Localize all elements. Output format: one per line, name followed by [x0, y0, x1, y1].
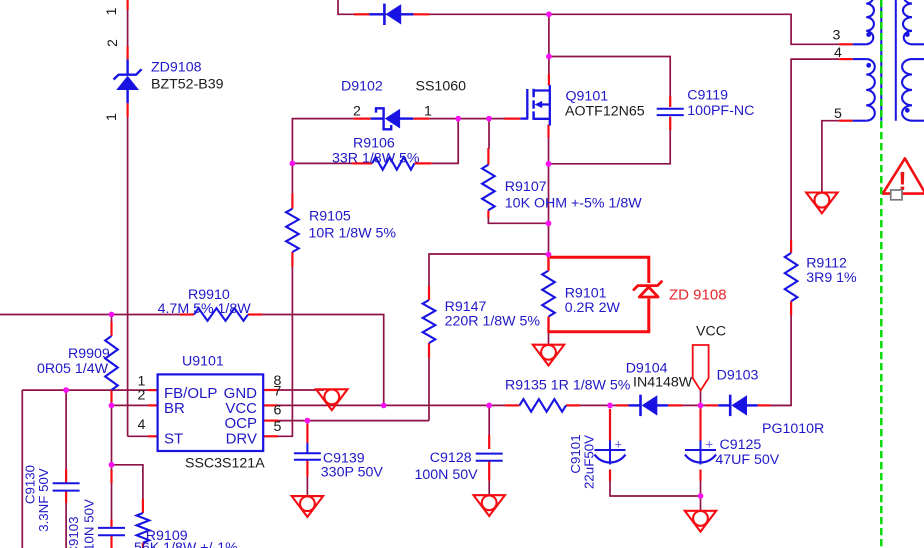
ground at C9139	[292, 496, 323, 517]
svg-text:BZT52-B39: BZT52-B39	[151, 77, 224, 93]
svg-text:D9102: D9102	[341, 78, 383, 94]
label R9101	[565, 285, 607, 301]
capacitor C9130	[53, 483, 80, 490]
wire HV top feed	[338, 0, 549, 14]
capacitor C9101	[595, 437, 626, 465]
label R9106	[353, 135, 395, 151]
svg-text:C9103: C9103	[66, 516, 81, 548]
svg-text:3: 3	[833, 27, 841, 43]
wire C9101 bottom	[610, 481, 701, 497]
wire VCC symbol stub	[700, 391, 702, 410]
svg-text:4: 4	[834, 45, 842, 61]
svg-text:+: +	[615, 437, 623, 452]
svg-text:AOTF12N65: AOTF12N65	[565, 104, 645, 120]
wire drain to MOSFET	[548, 57, 550, 75]
svg-text:10R 1/8W 5%: 10R 1/8W 5%	[309, 225, 397, 241]
resistor R9101	[542, 271, 555, 317]
label R9109	[146, 528, 188, 544]
label D9103	[717, 368, 759, 384]
label R9112	[806, 256, 847, 272]
transformer secondary winding top	[903, 0, 924, 44]
wire left edge drop	[21, 390, 23, 548]
transformer secondary winding bottom	[902, 59, 924, 121]
svg-text:BR: BR	[164, 400, 185, 417]
IC pin numbers left	[138, 373, 146, 433]
resistor R9909	[105, 336, 118, 390]
wire R9107 bottom link	[488, 217, 548, 223]
label AOTF12N65	[565, 104, 645, 120]
label ZD9108	[151, 60, 202, 76]
svg-text:1: 1	[104, 113, 120, 121]
svg-text:C9125: C9125	[720, 437, 762, 453]
label pin 2 zener	[105, 39, 121, 47]
svg-text:2: 2	[138, 388, 146, 404]
svg-text:7: 7	[274, 383, 282, 399]
wire GND pin line	[263, 389, 324, 391]
svg-text:1: 1	[424, 103, 432, 119]
label VCC	[696, 324, 726, 340]
label R9106 value	[332, 150, 420, 166]
wire C9128 drop	[488, 405, 490, 495]
warning triangle symbol	[883, 158, 924, 199]
red highlight wire box	[549, 257, 649, 333]
label C9130 value	[36, 468, 51, 532]
svg-text:4.7M 5% 1/8W: 4.7M 5% 1/8W	[158, 301, 252, 317]
wire VCC line seg2	[579, 404, 617, 406]
label IN4148W	[633, 375, 693, 391]
label R9147	[445, 299, 487, 315]
label C9128 value	[415, 467, 479, 483]
wire transformer pin 4 down	[791, 59, 839, 241]
wire R9101 to ground	[548, 333, 550, 345]
wire VCC line seg1	[277, 404, 506, 406]
svg-text:Q9101: Q9101	[566, 89, 609, 105]
label R9107 value	[505, 195, 642, 211]
capacitor C9103	[98, 528, 125, 535]
svg-text:OCP: OCP	[224, 415, 257, 432]
wire C9139 drop	[306, 421, 308, 497]
svg-text:D9103: D9103	[717, 368, 759, 384]
label pin 1 zener	[104, 113, 120, 121]
diode D9104	[629, 395, 669, 416]
label ZD 9108	[669, 287, 727, 304]
wire transformer pin 5 to ground	[822, 121, 839, 193]
transformer polarity dots secondary	[905, 32, 910, 113]
wire snubber top	[549, 57, 670, 108]
svg-text:3R9 1%: 3R9 1%	[806, 270, 857, 286]
svg-text:2: 2	[105, 39, 121, 47]
svg-text:4: 4	[138, 417, 146, 433]
wire C9103 rail	[111, 483, 113, 521]
svg-text:R9105: R9105	[309, 209, 351, 225]
label R9910	[188, 287, 230, 303]
svg-text:1: 1	[104, 7, 120, 15]
ground at R9101	[533, 345, 564, 366]
svg-text:PG1010R: PG1010R	[762, 421, 824, 437]
svg-text:100PF-NC: 100PF-NC	[687, 103, 754, 119]
wire VCC line seg4	[770, 404, 791, 406]
ground at C9128	[474, 495, 505, 516]
wire left rail	[128, 10, 149, 437]
svg-text:R9107: R9107	[505, 179, 547, 195]
wire FB/OLP line	[22, 389, 149, 391]
label SS1060	[416, 78, 467, 94]
wire C9125 bottom	[700, 481, 702, 512]
wire gate net	[429, 118, 505, 120]
svg-text:5: 5	[834, 106, 842, 122]
resistor R9910	[194, 308, 248, 321]
label D9102 pin 2	[353, 103, 361, 119]
capacitor C9139	[294, 443, 321, 460]
wire drain drop	[548, 14, 550, 56]
diode D9103	[718, 395, 757, 416]
transformer primary winding 4-5	[853, 59, 875, 121]
label 100PF-NC	[687, 103, 754, 119]
label C9139	[323, 450, 365, 466]
ground at C9125	[685, 511, 716, 532]
svg-text:56K 1/8W +/-1%: 56K 1/8W +/-1%	[134, 540, 238, 548]
wire D9102 left loop	[292, 119, 353, 164]
wire R9910 right to VCC line	[262, 315, 384, 406]
label D9102 pin 1	[424, 103, 432, 119]
diode D9102	[371, 108, 414, 129]
svg-text:SS1060: SS1060	[416, 78, 467, 94]
label C9119	[687, 88, 728, 104]
label Q9101	[566, 89, 609, 105]
svg-text:100N 50V: 100N 50V	[415, 467, 479, 483]
wire snubber bottom	[549, 117, 671, 164]
transformer primary winding 3-4	[853, 0, 874, 44]
label C9103 value	[81, 499, 96, 548]
label R9109 value	[134, 540, 238, 548]
svg-text:U9101: U9101	[182, 354, 224, 370]
isolation barrier dashed line	[880, 0, 882, 548]
resistor R9109	[137, 513, 150, 543]
svg-text:47UF 50V: 47UF 50V	[715, 452, 779, 468]
capacitor C9128	[476, 454, 503, 461]
wire VCC line seg3	[682, 404, 707, 406]
IC pin numbers right	[274, 373, 282, 435]
svg-text:R9112: R9112	[806, 256, 847, 272]
svg-text:330P 50V: 330P 50V	[321, 465, 384, 481]
wire R9112 to D9103	[770, 315, 791, 406]
label R9909	[68, 346, 110, 362]
capacitor C9119	[657, 109, 684, 115]
IC pin names right	[224, 385, 258, 448]
wire R9909 rail	[111, 315, 113, 471]
label R9135	[505, 378, 631, 394]
svg-text:R9106: R9106	[353, 135, 395, 151]
wire R9147 vertical	[429, 254, 549, 421]
zener ZD 9108 red	[634, 282, 662, 297]
ground at GND pin	[316, 389, 347, 410]
label D9104	[626, 361, 668, 377]
label C9101 value	[582, 435, 597, 489]
power symbol VCC	[693, 345, 709, 391]
svg-text:3.3NF 50V: 3.3NF 50V	[36, 468, 51, 532]
svg-text:22uF50V: 22uF50V	[582, 435, 597, 489]
label R9910 value	[158, 301, 252, 317]
svg-text:C9119: C9119	[687, 88, 728, 104]
label R9112 value	[806, 270, 857, 286]
wire R9107 top link	[488, 119, 490, 149]
label R9101 value	[565, 300, 621, 316]
svg-text:ZD 9108: ZD 9108	[669, 287, 727, 304]
label U9101	[182, 354, 224, 370]
wire source rail down	[548, 137, 550, 257]
label R9147 value	[445, 313, 541, 329]
svg-text:0.2R 2W: 0.2R 2W	[565, 300, 621, 316]
wire R9105 to DRV pin	[277, 267, 292, 437]
svg-text:2: 2	[353, 103, 361, 119]
label transformer pin 5	[834, 106, 842, 122]
svg-text:+: +	[706, 437, 714, 452]
svg-text:10N 50V: 10N 50V	[81, 499, 96, 548]
wire R9109 link	[112, 465, 143, 500]
op-amp U9101 box	[158, 374, 264, 451]
svg-text:220R 1/8W 5%: 220R 1/8W 5%	[445, 313, 541, 329]
label PG1010R	[762, 421, 824, 437]
wire R9106 left	[292, 162, 352, 164]
wire OCP line	[277, 420, 429, 422]
label transformer pin 4	[834, 45, 842, 61]
capacitor C9125	[685, 437, 716, 465]
resistor R9107	[482, 165, 495, 211]
wire top feed to transformer pin 3	[549, 14, 839, 44]
svg-text:IN4148W: IN4148W	[633, 375, 693, 391]
resistor R9112	[785, 253, 798, 301]
ground at transformer pin 5	[806, 193, 837, 214]
label R9105	[309, 209, 351, 225]
label R9107	[505, 179, 547, 195]
svg-text:33R 1/8W 5%: 33R 1/8W 5%	[332, 150, 420, 166]
IC pin names left	[164, 385, 217, 448]
label pin 1 top	[104, 7, 120, 15]
svg-text:DRV: DRV	[226, 431, 257, 448]
label R9105 value	[309, 225, 397, 241]
label C9125 value	[715, 452, 779, 468]
label C9139 value	[321, 465, 384, 481]
wire gate loop to R9106	[432, 119, 458, 164]
label C9125	[720, 437, 762, 453]
label SSC3S121A	[185, 455, 265, 471]
wire HV horizontal	[0, 314, 181, 316]
label C9128	[430, 450, 472, 466]
svg-text:5: 5	[274, 419, 282, 435]
resistor R9135	[520, 399, 567, 412]
transformer core lines	[881, 0, 896, 121]
svg-text:R9909: R9909	[68, 346, 110, 362]
resistor R9105	[286, 209, 299, 252]
label transformer pin 3	[833, 27, 841, 43]
svg-text:VCC: VCC	[696, 324, 726, 340]
resistor R9106	[372, 157, 414, 170]
diode D9101	[369, 4, 413, 25]
label C9130	[22, 465, 37, 504]
label R9909 value	[37, 361, 109, 377]
svg-text:ZD9108: ZD9108	[151, 60, 202, 76]
svg-text:10K OHM +-5% 1/8W: 10K OHM +-5% 1/8W	[505, 195, 642, 211]
svg-text:0R05 1/4W: 0R05 1/4W	[37, 361, 109, 377]
zener ZD9108	[114, 59, 142, 103]
label D9102	[341, 78, 383, 94]
resistor R9147	[423, 300, 436, 343]
transformer polarity dots primary	[866, 32, 871, 68]
label C9103	[66, 516, 81, 548]
svg-text:R9135 1R 1/8W 5%: R9135 1R 1/8W 5%	[505, 378, 631, 394]
label C9101	[568, 434, 583, 473]
svg-text:C9128: C9128	[430, 450, 472, 466]
label BZT52-B39	[151, 77, 224, 93]
wire R9105 top lead	[291, 163, 293, 194]
wire C9130 drop	[65, 390, 67, 548]
transistor Q9101	[520, 85, 550, 126]
wire BR line	[112, 404, 150, 406]
svg-text:6: 6	[274, 403, 282, 419]
svg-text:SSC3S121A: SSC3S121A	[185, 455, 265, 471]
svg-text:ST: ST	[164, 431, 183, 448]
